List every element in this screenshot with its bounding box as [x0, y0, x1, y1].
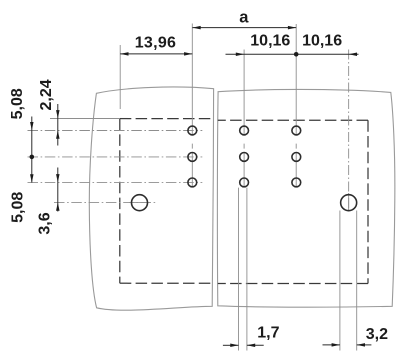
hole C1: [292, 126, 301, 135]
hole C3: [292, 178, 301, 187]
center line pin column 2 (right block col 1): [243, 50, 245, 187]
svg-text:3,2: 3,2: [366, 326, 388, 343]
big hole right: [341, 195, 357, 211]
big hole row center line: [54, 202, 156, 204]
pin slot lines 3,2: [339, 211, 341, 351]
dimension 10,16 line: [226, 53, 359, 55]
svg-text:a: a: [239, 8, 249, 26]
hole C2: [292, 153, 301, 162]
row 2 center line: [28, 156, 203, 158]
center line big hole right: [348, 50, 350, 212]
extension line 13,96 left: [119, 45, 121, 109]
svg-text:5,08: 5,08: [9, 88, 26, 119]
row 3 center line: [28, 181, 203, 183]
junction dot rows: [30, 155, 35, 160]
svg-text:10,16: 10,16: [302, 33, 342, 50]
hole A1: [188, 126, 197, 135]
svg-text:1,7: 1,7: [257, 325, 279, 342]
dimension 3,2 lines: [323, 344, 340, 346]
right footprint dashed contour: [218, 119, 368, 121]
svg-text:10,16: 10,16: [250, 33, 290, 50]
left footprint dashed contour: [120, 118, 214, 120]
dimension column 5,08: [31, 117, 33, 183]
dimension 1,7 lines: [223, 344, 239, 346]
junction dot a/10,16: [294, 52, 299, 57]
dimension 13,96 line: [120, 53, 192, 55]
svg-text:13,96: 13,96: [135, 35, 177, 52]
svg-text:3,6: 3,6: [37, 212, 54, 234]
pin slot lines 1,7: [238, 188, 240, 351]
hole A2: [188, 153, 197, 162]
hole B1: [240, 126, 249, 135]
hole B2: [240, 153, 249, 162]
dimension a line: [192, 27, 296, 29]
center line pin column 3 (right block col 2): [295, 24, 297, 187]
dimension column 2,24 / 3,6: [57, 104, 59, 146]
svg-text:5,08: 5,08: [10, 192, 27, 223]
left housing outline: [89, 87, 213, 310]
hole A3: [188, 178, 197, 187]
center line pin column 1 (left block): [191, 24, 193, 187]
edge reference line 2,24: [50, 118, 120, 120]
big hole left: [132, 195, 148, 211]
svg-text:2,24: 2,24: [38, 79, 55, 110]
right housing outline: [217, 89, 394, 307]
row 1 center line: [28, 130, 203, 132]
hole B3: [240, 178, 249, 187]
